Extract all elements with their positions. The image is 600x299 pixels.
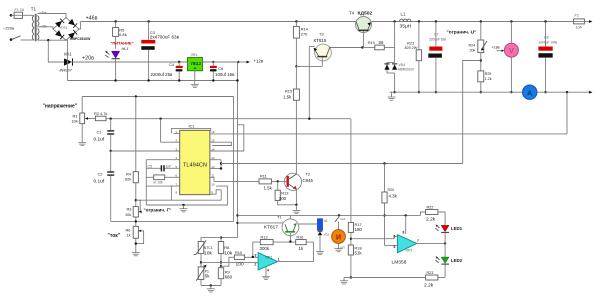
wire loop bottom bbox=[146, 186, 227, 205]
R3 wiper bbox=[136, 200, 140, 212]
svg-text:Кн1: Кн1 bbox=[341, 217, 346, 221]
svg-text:8: 8 bbox=[403, 231, 405, 235]
wire R2 to bus bbox=[106, 118, 351, 120]
svg-text:1nF: 1nF bbox=[166, 164, 172, 168]
svg-text:300k: 300k bbox=[260, 246, 270, 251]
svg-text:LM358: LM358 bbox=[392, 260, 407, 266]
op-amp OP2 LM358 bbox=[397, 235, 416, 253]
resistor R18 bbox=[348, 245, 353, 255]
svg-text:1k: 1k bbox=[299, 246, 304, 251]
svg-text:1.5k: 1.5k bbox=[283, 95, 292, 100]
pin stubs left bbox=[146, 119, 179, 186]
wire divider to OP2 plus bbox=[351, 236, 398, 238]
svg-text:KBPC3510W: KBPC3510W bbox=[70, 37, 91, 41]
input terminal bottom bbox=[10, 38, 13, 41]
resistor R11 bbox=[259, 179, 271, 184]
ammeter A bbox=[523, 85, 537, 99]
node on ac line bbox=[47, 39, 49, 41]
svg-text:R15: R15 bbox=[285, 89, 292, 94]
svg-text:+12в: +12в bbox=[254, 58, 264, 63]
diode VD2 bbox=[318, 230, 323, 232]
ground bus output bbox=[390, 91, 590, 93]
wire secondary tap to bridge bbox=[38, 27, 54, 29]
svg-text:10k: 10k bbox=[204, 251, 212, 257]
svg-text:R24: R24 bbox=[469, 44, 476, 48]
svg-text:2x4700uF 63в: 2x4700uF 63в bbox=[150, 34, 180, 39]
svg-text:OP1: OP1 bbox=[266, 255, 273, 259]
svg-text:"огранич. U": "огранич. U" bbox=[447, 30, 477, 36]
diode VD1 bbox=[64, 58, 73, 65]
LED1 red bbox=[441, 225, 449, 231]
svg-text:2: 2 bbox=[255, 263, 257, 267]
resistor R23 bbox=[426, 275, 438, 280]
wire R3 bottom bbox=[135, 217, 137, 226]
resistor R9 bbox=[218, 268, 223, 279]
capacitor C7 bbox=[435, 20, 437, 22]
svg-text:К1: К1 bbox=[324, 219, 328, 223]
svg-text:180: 180 bbox=[355, 227, 363, 232]
svg-text:300: 300 bbox=[279, 196, 287, 201]
indicator И bbox=[332, 230, 346, 244]
VD4 column bbox=[393, 20, 395, 22]
svg-text:10k: 10k bbox=[125, 212, 131, 217]
TOP RAILS bbox=[81, 14, 593, 88]
resistor R25 bbox=[478, 71, 484, 82]
svg-text:51k: 51k bbox=[355, 251, 363, 256]
svg-text:"ток": "ток" bbox=[108, 233, 121, 239]
resistor R4 bbox=[135, 95, 137, 97]
capacitor C6 bbox=[212, 61, 214, 63]
svg-text:35μH: 35μH bbox=[400, 24, 412, 30]
IC SECTION bbox=[144, 62, 568, 238]
resistor R8 bbox=[218, 242, 223, 254]
svg-text:R21: R21 bbox=[407, 41, 414, 46]
ground return line bbox=[68, 80, 238, 82]
wire C1 to IC pin3 bbox=[110, 150, 112, 152]
LEFT REGUL SECTION bbox=[43, 95, 351, 256]
bottom tie and ground bbox=[201, 285, 221, 287]
svg-text:R19: R19 bbox=[368, 41, 375, 45]
svg-text:V: V bbox=[509, 46, 514, 55]
resistor R10 bbox=[221, 257, 234, 266]
LED2 green bbox=[441, 257, 449, 263]
svg-text:A: A bbox=[527, 88, 533, 97]
svg-text:VD4: VD4 bbox=[399, 63, 406, 67]
svg-text:HL1: HL1 bbox=[122, 46, 129, 51]
wire secondary bottom under bridge bbox=[38, 39, 67, 41]
svg-text:+18в: +18в bbox=[492, 46, 500, 50]
BOTTOM LEFT bbox=[194, 214, 346, 292]
capacitor C4 bbox=[178, 61, 180, 63]
resistor R16 bbox=[296, 240, 307, 245]
bottom bus bbox=[111, 220, 234, 222]
svg-text:C2: C2 bbox=[98, 172, 103, 177]
svg-text:56: 56 bbox=[379, 40, 384, 45]
svg-text:VDS1: VDS1 bbox=[60, 26, 68, 30]
op-amp IC1 TL494CN bbox=[180, 130, 210, 194]
OP2 power feed bbox=[405, 214, 407, 216]
svg-text:6.8k: 6.8k bbox=[119, 32, 126, 37]
svg-text:IC1: IC1 bbox=[189, 123, 195, 128]
svg-text:КТ815: КТ815 bbox=[314, 38, 327, 43]
svg-text:100: 100 bbox=[236, 261, 244, 267]
svg-text:2200uF 63в: 2200uF 63в bbox=[429, 38, 446, 42]
MIDDLE TRANSISTORS bbox=[259, 11, 414, 214]
wire loop to R3 wiper bbox=[220, 190, 222, 200]
svg-text:R2 4.7k: R2 4.7k bbox=[94, 111, 107, 116]
svg-text:L1: L1 bbox=[401, 12, 406, 17]
bridge minus return bbox=[66, 40, 68, 80]
svg-text:R8: R8 bbox=[224, 245, 229, 250]
IC1 label box bbox=[172, 128, 211, 133]
ground above bus bbox=[295, 205, 297, 211]
svg-text:Т1: Т1 bbox=[277, 215, 282, 220]
resistor R13 bbox=[277, 181, 279, 190]
voltmeter V bbox=[510, 20, 512, 22]
regulator VR1 7812 bbox=[188, 58, 203, 71]
svg-text:0.1uf: 0.1uf bbox=[94, 137, 105, 143]
pin9 hook bbox=[210, 190, 221, 194]
pin14 wire bbox=[210, 125, 244, 151]
svg-text:КТ817: КТ817 bbox=[264, 225, 278, 231]
wire NTC to OP1 minus bbox=[201, 261, 258, 263]
svg-text:C7: C7 bbox=[434, 33, 439, 37]
svg-text:Т2: Т2 bbox=[306, 172, 311, 177]
capacitor C8 bbox=[544, 20, 546, 22]
svg-text:C6: C6 bbox=[218, 66, 223, 71]
svg-text:OP2: OP2 bbox=[406, 249, 413, 253]
capacitor C5 bbox=[160, 165, 162, 171]
svg-text:7: 7 bbox=[417, 239, 419, 243]
svg-text:NTC1: NTC1 bbox=[204, 246, 213, 250]
svg-text:+20в: +20в bbox=[82, 56, 94, 62]
svg-text:10k: 10k bbox=[224, 251, 232, 257]
svg-text:5: 5 bbox=[394, 235, 396, 239]
svg-text:"ПИТАНИЕ": "ПИТАНИЕ" bbox=[111, 40, 134, 45]
svg-text:R3: R3 bbox=[127, 207, 132, 212]
T3 base column bbox=[308, 47, 310, 119]
OP1 output bbox=[278, 261, 314, 263]
svg-text:+46в: +46в bbox=[86, 16, 98, 22]
ground symbol on bus bbox=[391, 92, 393, 97]
svg-text:20k: 20k bbox=[470, 49, 476, 53]
wire +20v rail bbox=[203, 61, 239, 63]
wire R24 tap to feedback bbox=[463, 61, 481, 164]
relay K1 bbox=[317, 219, 322, 231]
svg-text:"огранич. Г": "огранич. Г" bbox=[144, 208, 172, 213]
svg-text:16: 16 bbox=[211, 130, 215, 134]
svg-text:VD2: VD2 bbox=[324, 233, 330, 237]
+12v bus bbox=[238, 214, 421, 216]
svg-text:Т3: Т3 bbox=[319, 32, 324, 37]
thermistor NTC1 bbox=[198, 242, 204, 254]
svg-text:КД502: КД502 bbox=[358, 11, 373, 17]
svg-text:1: 1 bbox=[278, 258, 280, 262]
wire R20 to OP2 minus bbox=[385, 244, 398, 246]
ground under R1 bbox=[78, 143, 86, 146]
svg-text:R13: R13 bbox=[281, 191, 288, 196]
op-amp OP1 bbox=[258, 253, 278, 270]
OUTPUT SECTION bbox=[238, 12, 593, 246]
vertical B (+12v feed) bbox=[237, 62, 239, 238]
resistor R22 bbox=[421, 212, 426, 215]
fuse F2 bbox=[574, 19, 585, 24]
potentiometer R24 bbox=[480, 20, 482, 22]
potentiometer R3 bbox=[135, 183, 137, 207]
svg-text:R22: R22 bbox=[427, 205, 434, 209]
svg-text:2.2k: 2.2k bbox=[426, 217, 436, 223]
resistor R20 bbox=[383, 162, 385, 164]
pin numbers left bbox=[176, 130, 178, 195]
resistor R21 bbox=[418, 20, 420, 22]
svg-text:C1: C1 bbox=[97, 130, 102, 135]
potentiometer R1 bbox=[81, 97, 83, 114]
MAINS INPUT SECTION bbox=[3, 7, 238, 81]
svg-text:1000uF 100в: 1000uF 100в bbox=[539, 41, 558, 45]
svg-text:270: 270 bbox=[301, 32, 308, 37]
svg-text:3: 3 bbox=[255, 254, 257, 258]
svg-text:7812: 7812 bbox=[190, 61, 201, 67]
svg-text:Т4: Т4 bbox=[349, 11, 355, 16]
svg-text:0.1uf: 0.1uf bbox=[94, 179, 105, 185]
bridge VDS1 bbox=[53, 18, 79, 41]
svg-text:1.2k: 1.2k bbox=[485, 77, 492, 81]
pin11 wire to R11 bbox=[210, 177, 259, 181]
svg-text:LED2: LED2 bbox=[451, 258, 463, 263]
wire secondary top to bridge bbox=[38, 14, 67, 18]
capacitor C3 bbox=[147, 20, 149, 22]
feedback line to R24/R25 bbox=[221, 163, 463, 165]
feedback from output bbox=[566, 91, 568, 93]
wire to VD1 bbox=[48, 40, 64, 62]
svg-text:R12: R12 bbox=[261, 234, 268, 239]
svg-text:10k: 10k bbox=[72, 119, 78, 124]
svg-text:И: И bbox=[336, 235, 341, 242]
svg-text:820 2W: 820 2W bbox=[405, 46, 418, 50]
vertical A bbox=[233, 97, 235, 222]
svg-text:F1 2A: F1 2A bbox=[15, 8, 25, 12]
svg-text:R16: R16 bbox=[297, 235, 304, 239]
capacitor C2 bbox=[110, 151, 112, 172]
wire bbox=[11, 14, 14, 16]
OP1 pin4 ground bbox=[265, 267, 267, 277]
pin13/12 tie bbox=[210, 159, 221, 161]
svg-text:1k: 1k bbox=[127, 233, 131, 238]
resistor R19 bbox=[362, 47, 374, 49]
resistor R2 bbox=[86, 118, 95, 120]
diodes VD4 bbox=[387, 61, 395, 63]
resistor R12 bbox=[253, 242, 260, 257]
resistor R15 bbox=[295, 66, 297, 89]
svg-text:C4: C4 bbox=[169, 62, 175, 67]
svg-text:VR1: VR1 bbox=[191, 53, 198, 57]
ground at R18 bottom bbox=[344, 277, 351, 279]
left tie vertical bbox=[145, 160, 147, 205]
feed to NTC/R8 bbox=[221, 237, 238, 239]
svg-text:6: 6 bbox=[394, 245, 396, 249]
svg-text:4: 4 bbox=[267, 269, 269, 273]
svg-text:"напряжение": "напряжение" bbox=[43, 104, 78, 110]
svg-text:R23: R23 bbox=[427, 271, 434, 275]
svg-text:5k: 5k bbox=[205, 274, 210, 279]
svg-text:F2: F2 bbox=[575, 14, 579, 18]
svg-text:R20: R20 bbox=[388, 188, 395, 192]
fuse F1 bbox=[14, 12, 22, 18]
svg-text:10: 10 bbox=[211, 183, 215, 187]
resistor R17 bbox=[350, 119, 352, 223]
svg-text:680: 680 bbox=[225, 275, 233, 280]
+46v wire from bridge bbox=[79, 22, 81, 30]
svg-text:R10: R10 bbox=[235, 250, 243, 255]
resistor R5 bbox=[114, 20, 116, 22]
node line top bbox=[82, 96, 233, 98]
svg-text:10A: 10A bbox=[576, 26, 583, 30]
svg-text:MBR20100: MBR20100 bbox=[398, 68, 414, 72]
LED HL1 bbox=[112, 51, 120, 58]
svg-text:1.5k: 1.5k bbox=[264, 186, 273, 191]
ground under VR1 bbox=[191, 81, 199, 88]
svg-text:C8: C8 bbox=[544, 36, 549, 40]
svg-text:2.2k: 2.2k bbox=[424, 283, 434, 289]
ground under R6 bbox=[132, 253, 140, 256]
capacitor C1 bbox=[110, 118, 112, 120]
wire bbox=[23, 14, 34, 16]
svg-text:IN4937: IN4937 bbox=[60, 69, 73, 73]
BOTTOM RIGHT bbox=[340, 119, 463, 289]
svg-text:TL494CN: TL494CN bbox=[183, 163, 207, 169]
svg-text:100uf 16в: 100uf 16в bbox=[215, 72, 235, 77]
svg-text:4.3k: 4.3k bbox=[389, 194, 398, 199]
pin16 wire long bbox=[210, 133, 567, 135]
svg-text:~220в: ~220в bbox=[3, 26, 14, 31]
svg-text:C5: C5 bbox=[148, 164, 152, 168]
svg-text:62k: 62k bbox=[125, 177, 131, 182]
svg-text:Т1: Т1 bbox=[31, 7, 37, 12]
switch S1 bbox=[12, 36, 21, 40]
switch Kn1 bbox=[338, 214, 340, 216]
svg-text:R25: R25 bbox=[485, 72, 492, 76]
T1 wires bbox=[238, 222, 284, 224]
pin8 loop vertical bbox=[170, 186, 172, 200]
ground on loop bbox=[182, 204, 184, 206]
svg-text:2200uf 25в: 2200uf 25в bbox=[151, 72, 174, 77]
svg-text:R11: R11 bbox=[260, 174, 267, 179]
bus to IC loops bbox=[136, 199, 221, 201]
resistor R14 bbox=[295, 20, 297, 22]
input terminal top bbox=[10, 14, 13, 17]
svg-text:кт 10k: кт 10k bbox=[154, 181, 164, 185]
wire +46v rail bbox=[81, 21, 356, 23]
+20v rail bbox=[70, 61, 188, 63]
potentiometer P1 bbox=[198, 267, 204, 280]
potentiometer R6 bbox=[133, 226, 138, 238]
OP2 output bbox=[417, 242, 445, 244]
resistor R7 10k bbox=[154, 175, 165, 180]
svg-text:LED1: LED1 bbox=[451, 226, 463, 231]
+12v output arrow bbox=[237, 61, 239, 63]
pin15 loop bbox=[210, 142, 232, 145]
pin numbers right bbox=[211, 130, 215, 195]
node R2 bus bbox=[159, 118, 161, 120]
svg-text:C945: C945 bbox=[303, 178, 314, 183]
